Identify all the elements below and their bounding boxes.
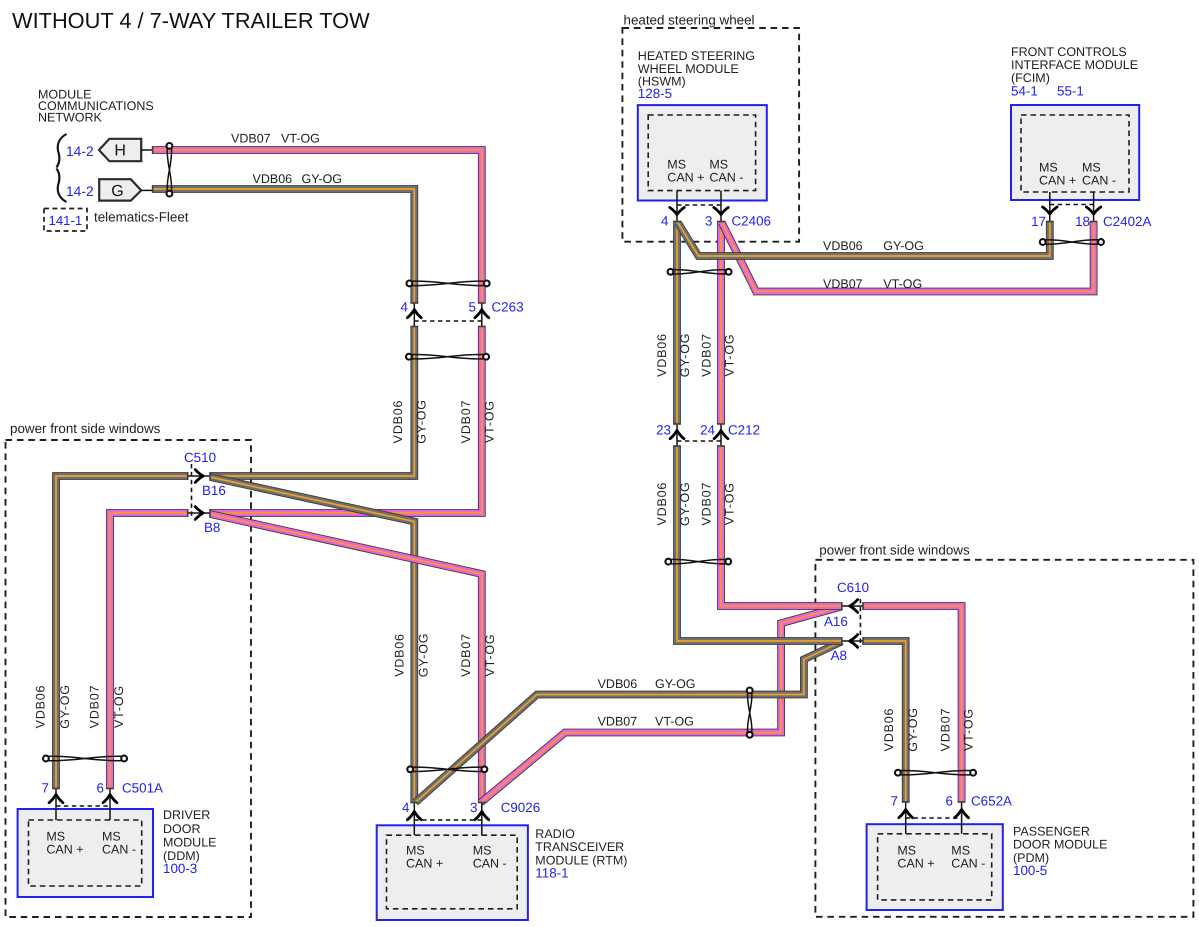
svg-text:18: 18 <box>1075 214 1090 229</box>
svg-text:MS: MS <box>102 830 121 844</box>
svg-text:VDB07: VDB07 <box>939 708 953 752</box>
svg-text:7: 7 <box>42 781 49 796</box>
svg-text:C652A: C652A <box>971 794 1012 809</box>
svg-text:4: 4 <box>401 300 409 315</box>
svg-text:VDB06: VDB06 <box>391 400 405 444</box>
svg-text:CAN -: CAN - <box>1082 174 1116 188</box>
svg-text:power front side windows: power front side windows <box>819 543 970 558</box>
svg-text:CAN -: CAN - <box>102 843 136 857</box>
svg-text:C212: C212 <box>728 423 760 438</box>
svg-text:MS: MS <box>473 844 492 858</box>
svg-text:CAN +: CAN + <box>406 857 443 871</box>
svg-text:GY-OG: GY-OG <box>417 633 431 678</box>
svg-text:VDB06: VDB06 <box>393 633 407 677</box>
svg-text:MS: MS <box>1082 161 1101 175</box>
svg-text:VDB07: VDB07 <box>88 685 102 729</box>
svg-text:TRANSCEIVER: TRANSCEIVER <box>535 840 624 854</box>
svg-text:C9026: C9026 <box>501 800 540 815</box>
svg-text:INTERFACE MODULE: INTERFACE MODULE <box>1011 58 1138 72</box>
svg-text:VDB07: VDB07 <box>823 277 863 291</box>
svg-text:VDB06: VDB06 <box>655 333 669 377</box>
svg-text:VDB07: VDB07 <box>459 400 473 444</box>
svg-text:GY-OG: GY-OG <box>906 707 920 752</box>
svg-text:14-2: 14-2 <box>66 184 94 199</box>
svg-text:GY-OG: GY-OG <box>678 333 692 378</box>
svg-text:VDB06: VDB06 <box>655 482 669 526</box>
svg-text:MS: MS <box>46 830 65 844</box>
svg-text:CAN +: CAN + <box>897 857 934 871</box>
svg-text:C2402A: C2402A <box>1103 214 1151 229</box>
svg-text:MS: MS <box>1039 161 1058 175</box>
svg-text:NETWORK: NETWORK <box>38 111 103 125</box>
svg-text:VT-OG: VT-OG <box>112 685 126 728</box>
svg-text:CAN +: CAN + <box>46 843 83 857</box>
svg-text:GY-OG: GY-OG <box>58 684 72 729</box>
svg-text:MODULE: MODULE <box>163 836 216 850</box>
svg-text:MS: MS <box>709 158 728 172</box>
svg-text:B8: B8 <box>204 520 220 535</box>
svg-text:VDB07: VDB07 <box>598 715 638 729</box>
svg-text:HEATED STEERING: HEATED STEERING <box>638 49 755 63</box>
svg-text:C501A: C501A <box>122 781 163 796</box>
svg-text:17: 17 <box>1031 214 1046 229</box>
svg-text:VDB06: VDB06 <box>823 239 863 253</box>
svg-text:A8: A8 <box>831 648 847 663</box>
svg-text:CAN +: CAN + <box>667 171 704 185</box>
svg-text:VT-OG: VT-OG <box>883 277 922 291</box>
svg-text:H: H <box>114 143 126 160</box>
svg-text:C263: C263 <box>492 300 524 315</box>
svg-text:C610: C610 <box>837 580 869 595</box>
svg-text:DRIVER: DRIVER <box>163 808 210 822</box>
svg-text:telematics-Fleet: telematics-Fleet <box>94 210 189 225</box>
svg-text:128-5: 128-5 <box>638 86 672 101</box>
svg-text:3: 3 <box>470 800 477 815</box>
svg-text:141-1: 141-1 <box>49 213 83 228</box>
svg-text:5: 5 <box>469 300 476 315</box>
svg-text:MS: MS <box>951 844 970 858</box>
svg-text:GY-OG: GY-OG <box>678 481 692 526</box>
svg-text:DOOR MODULE: DOOR MODULE <box>1013 838 1107 852</box>
svg-text:VDB06: VDB06 <box>253 172 293 186</box>
svg-text:VT-OG: VT-OG <box>962 708 976 751</box>
svg-text:power front side windows: power front side windows <box>10 421 161 436</box>
svg-text:4: 4 <box>661 214 669 229</box>
svg-text:MS: MS <box>897 844 916 858</box>
svg-text:7: 7 <box>891 794 898 809</box>
svg-text:VT-OG: VT-OG <box>723 482 737 525</box>
svg-text:118-1: 118-1 <box>535 866 568 881</box>
svg-text:C510: C510 <box>184 450 216 465</box>
svg-text:G: G <box>111 183 123 200</box>
svg-text:B16: B16 <box>202 483 226 498</box>
svg-text:VDB06: VDB06 <box>598 677 638 691</box>
svg-text:VT-OG: VT-OG <box>483 634 497 677</box>
svg-text:RADIO: RADIO <box>535 827 575 841</box>
svg-text:A16: A16 <box>824 614 848 629</box>
svg-text:24: 24 <box>700 423 715 438</box>
svg-text:55-1: 55-1 <box>1057 84 1084 99</box>
svg-text:VT-OG: VT-OG <box>281 132 320 146</box>
svg-text:VT-OG: VT-OG <box>483 400 497 443</box>
svg-text:VDB06: VDB06 <box>882 708 896 752</box>
svg-text:54-1: 54-1 <box>1011 84 1038 99</box>
svg-text:100-5: 100-5 <box>1013 863 1047 878</box>
svg-text:14-2: 14-2 <box>66 144 94 159</box>
svg-text:MS: MS <box>667 158 686 172</box>
svg-text:GY-OG: GY-OG <box>415 399 429 444</box>
svg-text:6: 6 <box>946 794 953 809</box>
svg-text:VDB07: VDB07 <box>231 132 271 146</box>
svg-text:C2406: C2406 <box>732 214 771 229</box>
svg-text:GY-OG: GY-OG <box>883 239 924 253</box>
svg-text:VDB07: VDB07 <box>700 333 714 377</box>
svg-text:3: 3 <box>705 214 712 229</box>
svg-text:PASSENGER: PASSENGER <box>1013 825 1090 839</box>
svg-text:GY-OG: GY-OG <box>302 172 343 186</box>
svg-text:VT-OG: VT-OG <box>723 334 737 377</box>
svg-text:CAN -: CAN - <box>709 171 743 185</box>
svg-text:VDB07: VDB07 <box>700 482 714 526</box>
svg-text:VT-OG: VT-OG <box>655 715 694 729</box>
svg-text:4: 4 <box>402 800 410 815</box>
svg-text:CAN -: CAN - <box>473 857 507 871</box>
svg-text:CAN -: CAN - <box>951 857 985 871</box>
svg-text:WITHOUT 4 / 7-WAY TRAILER TOW: WITHOUT 4 / 7-WAY TRAILER TOW <box>12 8 370 33</box>
svg-text:100-3: 100-3 <box>163 861 197 876</box>
svg-text:GY-OG: GY-OG <box>655 677 696 691</box>
svg-text:6: 6 <box>97 781 104 796</box>
svg-text:DOOR: DOOR <box>163 822 201 836</box>
svg-text:23: 23 <box>656 423 671 438</box>
svg-text:VDB06: VDB06 <box>34 685 48 729</box>
svg-text:CAN +: CAN + <box>1039 174 1076 188</box>
svg-text:MS: MS <box>406 844 425 858</box>
svg-text:heated steering wheel: heated steering wheel <box>624 13 755 28</box>
svg-text:FRONT CONTROLS: FRONT CONTROLS <box>1011 45 1127 59</box>
svg-text:VDB07: VDB07 <box>459 633 473 677</box>
